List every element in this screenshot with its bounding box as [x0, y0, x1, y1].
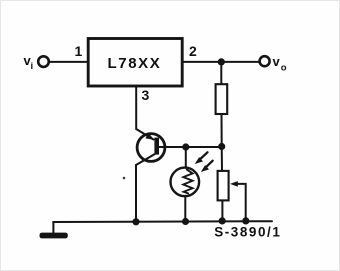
svg-text:3: 3: [142, 87, 150, 103]
regulator U1 L78XX box: [88, 39, 182, 87]
svg-text:2: 2: [189, 43, 197, 59]
wire node A to node B: [186, 146, 222, 148]
junction dot collector/rail: [132, 218, 139, 225]
wire P1 bottom to ground rail: [221, 201, 223, 221]
label Vi: [24, 53, 34, 72]
junction dot pot/rail: [219, 217, 226, 224]
junction dot output node: [218, 58, 225, 65]
label Vo: [273, 54, 287, 74]
svg-text:L78XX: L78XX: [108, 55, 162, 72]
potentiometer P1: [218, 171, 229, 201]
junction dot node A (base / LDR): [182, 143, 189, 150]
svg-text:S-3890/1: S-3890/1: [214, 224, 281, 239]
junction dot wiper/rail: [242, 217, 249, 224]
wire pin 3 to transistor emitter: [136, 87, 153, 140]
terminal Vo: [260, 56, 270, 66]
terminal Vi: [38, 56, 49, 67]
wire node B to potentiometer: [221, 147, 223, 171]
wire LDR to ground rail: [184, 196, 186, 222]
ground: [40, 222, 68, 238]
wire collector to ground rail: [135, 165, 137, 222]
svg-text:1: 1: [75, 43, 83, 59]
wire output node to resistor R1: [220, 62, 222, 84]
wire pin 2 to Vo: [183, 61, 260, 63]
wire R1 to node B: [221, 115, 223, 147]
speck: [123, 177, 126, 180]
light arrow 2: [201, 161, 213, 172]
svg-text:o: o: [281, 63, 287, 74]
ground rail wire: [53, 220, 272, 223]
transistor Q1: [136, 133, 186, 165]
wire node A to LDR: [185, 147, 187, 168]
junction dot node B (R1 / pot top): [218, 143, 225, 150]
svg-text:v: v: [273, 54, 281, 69]
svg-text:i: i: [31, 61, 34, 72]
photoresistor LDR: [171, 168, 200, 197]
light arrow 1: [195, 152, 208, 164]
resistor R1: [216, 84, 228, 114]
wire Vi to pin 1: [49, 61, 87, 63]
junction dot LDR/rail: [182, 218, 189, 225]
wiper arrow of P1: [230, 181, 246, 221]
